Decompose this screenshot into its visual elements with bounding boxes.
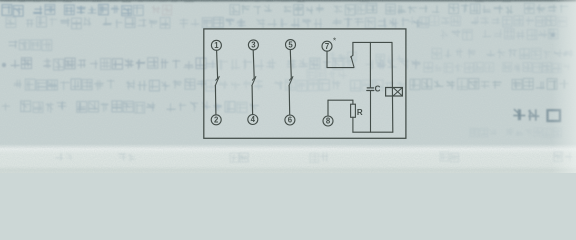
pin 1 terminal [211, 40, 221, 50]
circuit schematic [0, 0, 576, 173]
pin 4 terminal [248, 115, 258, 125]
wire pin8 horizontal [328, 99, 353, 101]
scanned page background shading [0, 0, 576, 173]
wire contact K3 (pins 5-6) lower [288, 86, 291, 115]
pin 2 terminal [211, 115, 221, 125]
wire contact K2 (pins 3-4) upper [253, 50, 254, 78]
wire bottom rail [353, 131, 393, 133]
pin 8 terminal [323, 116, 333, 126]
pin 7 terminal [322, 41, 332, 51]
capacitor C [367, 88, 374, 91]
wire coil branch [391, 42, 394, 132]
wire capacitor branch lower [370, 91, 372, 132]
wire contact K1 (pins 1-2) lower [214, 86, 217, 115]
pin 5 terminal [286, 40, 296, 50]
contact blade contact K1 (pins 1-2) [215, 77, 219, 86]
contact blade contact K3 (pins 5-6) [289, 77, 293, 86]
right page edge light [0, 0, 576, 173]
wire resistor lower [352, 117, 354, 132]
wire pin7 horizontal [327, 67, 354, 69]
wire top rail [353, 41, 392, 43]
paper noise [0, 0, 576, 173]
pin 3 terminal [248, 40, 258, 50]
wire capacitor branch upper [369, 42, 371, 87]
wire contact K1 (pins 1-2) upper [217, 50, 218, 78]
wire contact K2 (pins 3-4) lower [251, 86, 254, 115]
wire pin8 vertical [327, 100, 329, 116]
pin 6 terminal [285, 115, 295, 125]
wire contact K3 (pins 5-6) upper [290, 50, 291, 79]
contact blade K4 (pin 7) [351, 56, 354, 67]
wire pin7 vertical [326, 51, 328, 67]
contact blade contact K2 (pins 3-4) [252, 77, 256, 86]
wire contact K4 fixed [352, 42, 354, 55]
bleed-through ghost text [0, 0, 576, 173]
relay coil L1 [386, 88, 403, 97]
relay enclosure outline [204, 29, 406, 138]
wire resistor upper [352, 100, 354, 104]
resistor R [351, 104, 356, 117]
